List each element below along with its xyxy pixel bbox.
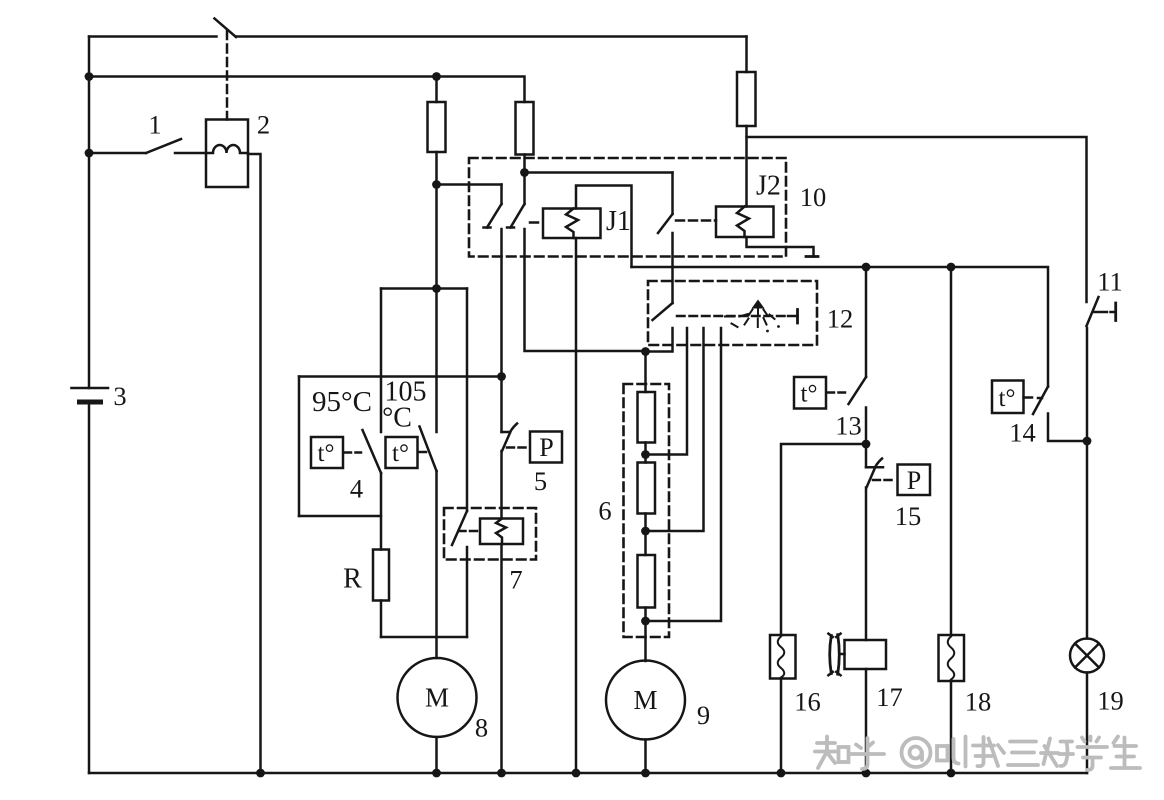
resistor R — [373, 550, 389, 638]
svg-text:19: 19 — [1097, 686, 1124, 716]
inductor winding inside 2 — [206, 145, 248, 153]
svg-text:1: 1 — [148, 110, 161, 140]
relay J2 coil box — [716, 207, 774, 238]
wire: bridge wire y288 between thermal switches — [381, 287, 467, 290]
node: motor 8 on ground bus — [432, 769, 441, 778]
contact B of relay J1 — [507, 173, 525, 228]
svg-text:5: 5 — [534, 466, 547, 496]
svg-text:M: M — [425, 683, 449, 713]
svg-text:4: 4 — [350, 474, 363, 504]
terminal tail of J2 — [747, 237, 819, 257]
heater zigzag inside 7 — [496, 519, 506, 545]
wire: valve switch to resistor pack — [644, 352, 647, 393]
dashed link switch 15 to P box — [873, 479, 896, 482]
switch 12 (washer valve contact) — [646, 303, 673, 352]
wire: y637 joining R and contact 7 to motor 8 column — [381, 636, 467, 639]
heater element wave inside 16 — [778, 637, 785, 678]
wire: top bus left segment — [89, 35, 217, 38]
svg-text:13: 13 — [835, 411, 862, 441]
contact blade of relay 7 — [452, 511, 467, 637]
svg-text:3: 3 — [113, 381, 126, 411]
svg-text:2: 2 — [257, 110, 270, 140]
dashed link sensor 13 to blade — [827, 391, 845, 394]
wire: dashed link contacts to relay J1 coil — [530, 221, 543, 224]
svg-text:15: 15 — [895, 501, 922, 531]
wire: tap 1 up to valve unit — [646, 328, 688, 455]
svg-text:18: 18 — [965, 687, 992, 717]
wire: second bus y76 to fuse F2 — [89, 77, 525, 103]
wire: motor 9 to ground bus — [644, 740, 647, 774]
horn 17 — [828, 634, 886, 676]
node: junction contact A line / box4 top wire — [497, 372, 506, 381]
resistor 6c — [638, 555, 656, 608]
wire: horn 17 to ground bus — [865, 669, 868, 773]
svg-text:95°C: 95°C — [312, 386, 372, 418]
pressure switch 5 — [502, 377, 518, 519]
contact C of relay J2 — [658, 173, 673, 234]
wire: top bus right segment to fuse 3 — [236, 35, 747, 38]
svg-text:12: 12 — [827, 304, 854, 334]
node: junction 866,444 — [862, 440, 871, 449]
battery 3 — [72, 388, 109, 402]
resistor pack 6 dashed outline — [624, 384, 670, 637]
temperature sensor t of 95C switch — [311, 437, 343, 468]
wire: tap 2 up to valve unit — [646, 328, 704, 531]
heater 18 box — [939, 635, 965, 681]
thermal relay 7 dashed outline — [444, 508, 536, 560]
node: heater 7 return on ground bus — [497, 769, 506, 778]
motor 9 — [606, 661, 685, 740]
thermal switch box 4 outline — [299, 377, 502, 517]
wire: contact A down to node 376 — [500, 229, 503, 377]
wire: between 6b and 6c — [644, 514, 647, 556]
pressure switch 15 — [866, 444, 883, 640]
wire: tap 3 up to valve unit — [646, 328, 722, 621]
resistor 6a — [638, 392, 656, 443]
node: fuse F1 bottom junction — [432, 180, 441, 189]
relay box 10 dashed outline — [469, 158, 786, 257]
svg-text:11: 11 — [1097, 267, 1123, 297]
wire: fuse F2 to relay contact C — [525, 171, 673, 174]
fuse F1 — [428, 77, 446, 185]
contact A of relay J1 — [484, 185, 502, 228]
wire: 6c to motor 9 — [644, 608, 647, 662]
wire: tap down to heater 18 — [950, 267, 953, 635]
wire: from node 866,444 to heater 16 — [781, 444, 866, 635]
thermal switch 14 — [1033, 387, 1087, 442]
dashed link switch 5 to P box — [507, 446, 529, 449]
wire: x467 from bridge down to contact 7 — [466, 289, 469, 512]
node: junction left rail / switch 1 branch — [85, 149, 94, 158]
wire: main distribution wire y267 — [632, 267, 1049, 387]
node: tap 1 — [641, 450, 650, 459]
spray nozzle symbol in box 12 — [725, 300, 780, 333]
heater element wave inside 18 — [948, 637, 955, 680]
node: junction 1087,441 — [1083, 437, 1092, 446]
wire: contact B down and right to node 645,351 — [525, 229, 646, 351]
svg-text:P: P — [539, 433, 553, 462]
node: relay 2 wire on ground bus — [256, 769, 265, 778]
svg-text:M: M — [633, 685, 657, 715]
wire: fuse F1 to relay contact A — [437, 183, 502, 186]
pressure sensor P box 15 — [898, 465, 931, 496]
node: J1 coil return on ground bus — [572, 769, 581, 778]
mechanical link and terminal bar of valve 12 — [677, 310, 798, 324]
svg-text:16: 16 — [794, 687, 821, 717]
wire: battery negative to ground bus — [88, 402, 91, 773]
svg-text:°C: °C — [382, 403, 412, 434]
wire: switch 11 down through node to lamp 19 — [1086, 328, 1089, 639]
heater zigzag inside J1 — [566, 209, 578, 239]
svg-text:10: 10 — [800, 182, 827, 212]
wire: contact B feed joining node 645,351 — [641, 347, 650, 356]
svg-text:8: 8 — [475, 713, 488, 743]
svg-text:J2: J2 — [756, 171, 781, 202]
switch 105C — [420, 289, 437, 659]
thermal switch 13 — [849, 267, 867, 444]
wire: from relay 2 output down to ground bus — [248, 154, 261, 773]
wire: left rail from top bus to battery — [88, 37, 91, 389]
node: fuse F1 top on second bus — [432, 72, 441, 81]
pressure sensor P box 5 — [530, 432, 562, 463]
node: horn 17 on ground bus — [862, 769, 871, 778]
wire: contact C down into box 12 — [671, 233, 674, 303]
node: heater 16 on ground bus — [777, 769, 786, 778]
temperature sensor t box 13 — [794, 377, 826, 409]
dashed link 95C sensor to blade — [344, 451, 361, 454]
wire: heater 18 to ground bus — [950, 681, 953, 773]
node: junction left rail / second bus — [85, 72, 94, 81]
node: tap 2 — [641, 527, 650, 536]
node: wire 18 tap — [947, 263, 956, 272]
relay coil 2 box — [206, 120, 248, 188]
svg-text:J1: J1 — [606, 206, 631, 237]
wire: lamp 19 to ground bus — [1086, 673, 1089, 774]
dashed link 105C sensor to blade — [419, 451, 427, 454]
node: heater 18 on ground bus — [947, 769, 956, 778]
svg-text:R: R — [343, 564, 362, 595]
temperature sensor t box 14 — [992, 381, 1024, 414]
wire: dashed link contact C to relay J2 coil — [676, 219, 716, 222]
node: bridge junction at 436,288 — [432, 284, 441, 293]
svg-text:t°: t° — [801, 381, 818, 408]
wire: heater 16 to ground bus — [780, 679, 783, 774]
wire: J1 coil top terminal up over to main wire y267 — [576, 186, 632, 268]
wire: between 6a and 6b — [644, 443, 647, 463]
svg-text:P: P — [907, 466, 921, 495]
switch 95C — [363, 289, 382, 550]
wire: dashed mechanical link from ignition switch to relay 2 — [226, 31, 229, 120]
switch 11 — [1087, 297, 1116, 326]
fuse F2 — [516, 102, 534, 173]
motor 8 — [398, 658, 477, 737]
link sensor 14 to blade — [1024, 396, 1043, 399]
svg-text:9: 9 — [697, 700, 710, 730]
svg-text:6: 6 — [598, 496, 611, 526]
wire: x436 down to bridge node — [435, 185, 438, 289]
wire: J1 coil bottom terminal down to ground bus — [575, 238, 578, 773]
dashed link blade 7 to heater — [459, 530, 479, 533]
switch 1 — [89, 139, 206, 153]
heater zigzag inside J2 — [737, 207, 749, 238]
wire: heater 7 down to ground bus — [500, 544, 503, 773]
fuse F3 — [737, 37, 756, 207]
node: tap 3 — [641, 617, 650, 626]
svg-text:t°: t° — [999, 385, 1016, 412]
temperature sensor t of 105C switch — [386, 437, 418, 468]
relay J1 coil box — [543, 209, 601, 239]
svg-text:t°: t° — [318, 440, 335, 467]
svg-text:14: 14 — [1009, 418, 1036, 448]
switch: ignition switch blade on top bus — [215, 19, 237, 38]
resistor 6b — [638, 463, 656, 514]
valve box 12 dashed outline — [648, 281, 817, 345]
svg-text:17: 17 — [876, 682, 903, 712]
node: wire 13 tap — [862, 263, 871, 272]
wire: bottom ground bus — [89, 772, 1087, 775]
wire: motor 8 to ground bus — [435, 737, 438, 773]
lamp 19 — [1070, 639, 1104, 673]
wire: branch from fuse F3 to lamp column — [747, 137, 1087, 302]
svg-text:7: 7 — [509, 565, 522, 595]
watermark zhihu — [815, 737, 1140, 771]
node: motor 9 on ground bus — [641, 769, 650, 778]
svg-text:t°: t° — [392, 440, 409, 467]
node: fuse F2 bottom junction — [520, 168, 529, 177]
heater box of relay 7 — [480, 519, 523, 545]
heater 16 box — [770, 635, 796, 679]
